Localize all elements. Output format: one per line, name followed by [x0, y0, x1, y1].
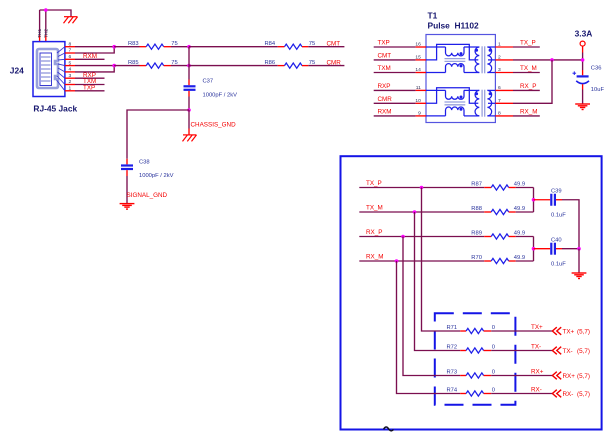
resistor R86 right stub — [302, 65, 308, 67]
svg-text:RX+: RX+ — [563, 373, 576, 380]
resistor R85 left stub — [140, 65, 147, 67]
pin 2 stub — [65, 84, 75, 86]
wire RX_M bus — [359, 260, 484, 262]
wire RX_M tap down to R74 — [397, 261, 461, 394]
svg-text:R84: R84 — [265, 41, 276, 47]
svg-text:TX_M: TX_M — [366, 205, 383, 212]
off-page connector RX- — [552, 390, 561, 398]
wire node to R85 — [114, 65, 139, 67]
resistor R87 right stub — [509, 187, 516, 189]
wire TXM — [374, 72, 416, 74]
svg-text:3: 3 — [69, 73, 72, 79]
wire TX_P tap down to R71 — [422, 188, 461, 332]
choke upper winding — [446, 47, 465, 56]
junction C40 — [532, 247, 536, 251]
resistor R87 left stub — [484, 187, 491, 189]
choke lower dot — [460, 64, 463, 67]
wire node to R84 — [189, 46, 278, 48]
svg-text:R71: R71 — [447, 325, 458, 331]
capacitor C37 top stub — [188, 80, 190, 86]
capacitor C37 plates — [184, 86, 196, 90]
capacitor C36 top stub — [582, 70, 584, 75]
wire CMR — [374, 102, 416, 104]
pin 7 stub — [65, 52, 75, 54]
svg-text:1: 1 — [69, 86, 72, 92]
svg-text:RXP: RXP — [378, 83, 391, 90]
svg-text:R88: R88 — [471, 206, 482, 212]
resistor R89 body — [491, 234, 509, 239]
svg-text:CHASSIS_GND: CHASSIS_GND — [191, 121, 237, 128]
junction shield — [44, 8, 48, 12]
svg-text:3.3A: 3.3A — [575, 28, 593, 38]
wire power to rail — [582, 53, 584, 71]
svg-text:0: 0 — [492, 369, 495, 375]
junction chassis node — [187, 108, 191, 112]
ground symbol (terminations) — [572, 273, 587, 279]
junction C39 — [532, 198, 536, 202]
wire pin4 up to pin5 — [75, 66, 114, 72]
resistor R86 body — [285, 63, 303, 68]
wire R87 to bar — [516, 187, 534, 189]
resistor R87 body — [491, 185, 509, 190]
wire pin6 RXM — [75, 58, 105, 60]
wire TXP — [374, 46, 416, 48]
capacitor C36 plus sign — [573, 71, 577, 75]
wire CMT center-tap jog — [426, 44, 478, 60]
wire pin7 to center tap rail — [513, 60, 552, 103]
svg-text:1000pF / 2kV: 1000pF / 2kV — [203, 92, 238, 98]
pin TH2 stub — [45, 36, 47, 42]
svg-text:49.9: 49.9 — [514, 206, 525, 212]
wire shield horizontal — [40, 10, 71, 17]
wire TH2 vertical — [45, 10, 47, 36]
primary dot — [475, 49, 478, 52]
capacitor C38 plates — [121, 166, 133, 170]
svg-text:TX+: TX+ — [563, 328, 575, 335]
wire RX termination bar — [533, 237, 535, 262]
svg-text:0.1uF: 0.1uF — [551, 261, 566, 267]
svg-text:2: 2 — [498, 55, 501, 61]
junction pins 7-8 — [112, 45, 116, 49]
svg-text:TXP: TXP — [378, 40, 390, 47]
svg-text:10uF: 10uF — [591, 87, 605, 93]
pin 3 stub — [65, 77, 75, 79]
capacitor C38 bottom stub — [126, 170, 128, 176]
svg-text:C38: C38 — [139, 160, 150, 166]
wire TX_M tap down to R72 — [415, 212, 461, 351]
svg-text:TX-: TX- — [563, 348, 573, 355]
capacitor C38 top stub — [126, 159, 128, 165]
wire RX_P bus — [359, 236, 484, 238]
resistor R73 body — [466, 373, 484, 378]
svg-text:6: 6 — [498, 85, 501, 91]
svg-text:(5,7): (5,7) — [577, 348, 590, 355]
junction row2 — [187, 64, 191, 68]
wire C36 to ground — [582, 90, 584, 105]
choke upper dot — [460, 52, 463, 55]
wire secondary bottom internal — [487, 72, 495, 74]
svg-text:R87: R87 — [471, 181, 482, 187]
pin 3 stub — [495, 72, 513, 74]
wire RXP — [374, 89, 416, 91]
revision squiggle mark — [384, 427, 394, 431]
T1 body box — [426, 35, 495, 123]
pin 9 stub — [416, 115, 426, 117]
capacitor C40 plates — [551, 243, 555, 255]
svg-text:15: 15 — [415, 55, 421, 61]
choke core lines — [445, 58, 466, 60]
pin 15 stub — [416, 59, 426, 61]
pin TH1 stub — [39, 36, 41, 42]
transformer primary winding — [475, 47, 479, 73]
transformer secondary winding — [487, 47, 491, 73]
wire TX_P bus — [359, 187, 484, 189]
wire pin5 to node — [75, 65, 114, 67]
resistor R71 body — [466, 328, 484, 333]
wire C38 to signal gnd — [126, 176, 128, 204]
connector J24 body — [33, 42, 65, 97]
wire choke to primary bottom — [464, 72, 479, 74]
resistor R83 body — [146, 44, 164, 49]
svg-text:TX_M: TX_M — [520, 65, 537, 72]
svg-text:RX_M: RX_M — [366, 254, 384, 261]
wire RX_P tap down to R73 — [403, 237, 460, 376]
svg-text:7: 7 — [69, 48, 72, 54]
resistor R72 body — [466, 348, 484, 353]
svg-text:1000pF / 2kV: 1000pF / 2kV — [139, 173, 174, 179]
svg-text:TH1: TH1 — [37, 28, 43, 38]
power stub — [582, 46, 584, 52]
wire R72 to connector — [491, 350, 552, 352]
resistor R89 right stub — [509, 236, 516, 238]
pin 14 stub — [416, 72, 426, 74]
svg-text:CMR: CMR — [327, 59, 342, 66]
svg-text:3: 3 — [498, 67, 501, 73]
resistor R74 left stub — [460, 393, 466, 395]
wire pin3 RXP — [75, 77, 105, 79]
svg-text:R72: R72 — [447, 344, 458, 350]
wire secondary tap internal — [488, 59, 495, 61]
dashed option box — [435, 313, 516, 405]
wire pin14 internal — [426, 72, 446, 74]
svg-text:R73: R73 — [447, 369, 458, 375]
pin 6 stub — [495, 89, 513, 91]
resistor R73 right stub — [484, 375, 492, 377]
pin 1 stub — [495, 46, 513, 48]
pin 8 stub — [65, 46, 75, 48]
svg-text:16: 16 — [415, 42, 421, 48]
svg-text:7: 7 — [498, 98, 501, 104]
svg-text:1: 1 — [498, 42, 501, 48]
wire pin16 internal — [426, 46, 446, 48]
svg-text:TXP: TXP — [83, 85, 95, 92]
resistor R71 right stub — [484, 330, 492, 332]
capacitor C36 bottom stub — [582, 84, 584, 89]
svg-text:R85: R85 — [128, 60, 139, 66]
pin 6 stub — [65, 58, 75, 60]
svg-text:R74: R74 — [447, 387, 458, 393]
wire row1 down to C37 — [188, 47, 190, 80]
svg-text:49.9: 49.9 — [514, 255, 525, 261]
pin 11 stub — [416, 89, 426, 91]
wire pin1 TXP — [75, 90, 105, 92]
svg-text:6: 6 — [69, 54, 72, 60]
resistor R70 body — [491, 258, 509, 263]
svg-text:(5,7): (5,7) — [577, 373, 590, 380]
capacitor C39 plates — [551, 194, 555, 206]
T1 RX half internals (choke + transformer) — [426, 88, 495, 117]
junction rail — [581, 58, 585, 62]
capacitor C39 left stub — [534, 199, 551, 201]
block border — [341, 156, 602, 429]
svg-text:C39: C39 — [551, 189, 562, 195]
resistor R86 left stub — [278, 65, 285, 67]
svg-text:4: 4 — [69, 67, 72, 73]
svg-text:5: 5 — [69, 60, 72, 66]
svg-text:RXM: RXM — [83, 53, 97, 60]
jack socket frame — [37, 49, 58, 88]
junction gnd rail — [577, 247, 581, 251]
svg-text:J24: J24 — [10, 66, 24, 76]
junction row1 — [187, 45, 191, 49]
wire C40 to gnd rail — [562, 248, 579, 250]
capacitor C36 curved plate — [576, 81, 589, 84]
svg-text:9: 9 — [418, 111, 421, 117]
pin 8 stub — [495, 115, 513, 117]
pin 1 stub — [65, 90, 75, 92]
svg-text:0: 0 — [492, 387, 495, 393]
svg-text:R89: R89 — [471, 230, 482, 236]
wire R70 to bar — [516, 260, 534, 262]
junction TX_M tap — [413, 210, 417, 214]
wire node to R83 — [114, 46, 139, 48]
svg-text:Pulse H1102: Pulse H1102 — [428, 21, 480, 31]
capacitor C40 right stub — [556, 248, 562, 250]
resistor R89 left stub — [484, 236, 491, 238]
svg-text:8: 8 — [498, 111, 501, 117]
svg-text:2: 2 — [69, 79, 72, 85]
resistor R88 body — [491, 209, 509, 214]
resistor R74 body — [466, 391, 484, 396]
resistor R84 left stub — [278, 46, 285, 48]
signal ground symbol — [120, 204, 135, 210]
wire C37 to node — [188, 97, 190, 111]
wire pin2 TXM — [75, 84, 105, 86]
wire node to C38 branch — [127, 110, 189, 159]
resistor R73 left stub — [460, 375, 466, 377]
wire R88 to bar — [516, 211, 534, 213]
pin 10 stub — [416, 102, 426, 104]
svg-text:RX_P: RX_P — [520, 83, 536, 90]
svg-text:RX+: RX+ — [531, 369, 544, 376]
svg-text:CMT: CMT — [327, 40, 341, 47]
svg-text:R70: R70 — [471, 255, 482, 261]
wire node down to chassis gnd — [188, 110, 190, 129]
svg-text:(5,7): (5,7) — [577, 328, 590, 335]
svg-text:TH2: TH2 — [43, 28, 49, 38]
T1 TX half internals — [426, 44, 495, 73]
resistor R84 right stub — [302, 46, 308, 48]
svg-text:49.9: 49.9 — [514, 230, 525, 236]
resistor R71 left stub — [460, 330, 466, 332]
jack contact block — [40, 53, 52, 86]
wire TX_P stub — [513, 46, 540, 48]
pin 2 stub — [495, 59, 513, 61]
svg-text:8: 8 — [69, 41, 72, 47]
pin 7 stub — [495, 102, 513, 104]
svg-text:11: 11 — [416, 85, 421, 91]
resistor R88 right stub — [509, 211, 516, 213]
wire RX_P stub — [513, 89, 540, 91]
resistor R74 right stub — [484, 393, 492, 395]
junction RX_P tap — [401, 235, 405, 239]
resistor R83 left stub — [140, 46, 147, 48]
junction pins 4-5 — [112, 64, 116, 68]
wire secondary top internal — [487, 46, 495, 48]
svg-text:R83: R83 — [128, 41, 139, 47]
svg-text:C37: C37 — [203, 79, 214, 85]
svg-text:CMR: CMR — [378, 96, 393, 103]
wire R83 to node — [171, 46, 189, 48]
capacitor C40 left stub — [534, 248, 551, 250]
power symbol 3.3A — [580, 41, 585, 46]
wire pin2 to 3.3A rail — [513, 59, 583, 61]
off-page connector RX+ — [552, 372, 561, 380]
svg-text:TX_P: TX_P — [366, 180, 382, 187]
pin 4 stub — [65, 71, 75, 73]
transformer core lines — [481, 46, 483, 73]
capacitor C39 right stub — [556, 199, 562, 201]
wire pin8 to node — [75, 46, 114, 48]
wire TX termination bar — [533, 188, 535, 213]
wire node to R86 — [189, 65, 278, 67]
junction center taps — [550, 58, 554, 62]
resistor R72 right stub — [484, 350, 492, 352]
resistor R72 left stub — [460, 350, 466, 352]
svg-text:0: 0 — [492, 325, 495, 331]
wire pin7 up to pin8 — [75, 47, 114, 53]
resistor R83 right stub — [164, 46, 171, 48]
wire RXM — [374, 115, 416, 117]
wire TX_M bus — [359, 211, 484, 213]
wire R86 to CMR — [308, 65, 344, 67]
junction RX_M tap — [395, 259, 399, 263]
svg-text:0: 0 — [492, 344, 495, 350]
wire R74 to connector — [491, 393, 552, 395]
svg-text:TX_P: TX_P — [520, 40, 536, 47]
wire R89 to bar — [516, 236, 534, 238]
wire R84 to CMT — [308, 46, 344, 48]
svg-text:TX-: TX- — [531, 344, 541, 351]
resistor R70 right stub — [509, 260, 516, 262]
wire R71 to connector — [491, 330, 552, 332]
svg-text:RX-: RX- — [563, 391, 574, 398]
wire choke to primary top — [464, 46, 479, 48]
capacitor C37 bottom stub — [188, 91, 190, 97]
svg-text:T1: T1 — [428, 10, 438, 20]
wire gnd rail down — [578, 249, 580, 273]
wire TH1 vertical — [39, 10, 41, 36]
svg-text:TXM: TXM — [378, 65, 391, 72]
svg-text:RX_P: RX_P — [366, 229, 382, 236]
wire TX_M stub — [513, 72, 540, 74]
resistor R88 left stub — [484, 211, 491, 213]
pin 5 stub — [65, 65, 75, 67]
wire R73 to connector — [491, 375, 552, 377]
resistor R84 body — [285, 44, 303, 49]
jack contact lines — [41, 57, 51, 81]
chassis ground (top-left) — [64, 17, 78, 24]
pin 16 stub — [416, 46, 426, 48]
resistor R70 left stub — [484, 260, 491, 262]
svg-text:RX_M: RX_M — [520, 109, 538, 116]
choke lower winding — [446, 64, 465, 73]
svg-text:CMT: CMT — [378, 53, 392, 60]
wire R85 to node — [171, 65, 189, 67]
off-page connector TX+ — [552, 327, 561, 335]
resistor R85 right stub — [164, 65, 171, 67]
wire C39 to gnd rail — [562, 200, 579, 249]
chassis ground symbol — [183, 135, 197, 142]
svg-text:C36: C36 — [591, 66, 602, 72]
wire RX_M stub — [513, 115, 540, 117]
svg-text:TX+: TX+ — [531, 324, 543, 331]
junction TX_P tap — [420, 186, 424, 190]
svg-text:(5,7): (5,7) — [577, 391, 590, 398]
off-page connector TX- — [552, 347, 561, 355]
svg-text:RX-: RX- — [531, 387, 542, 394]
wire CMT — [374, 59, 416, 61]
svg-text:R86: R86 — [265, 60, 276, 66]
svg-text:49.9: 49.9 — [514, 181, 525, 187]
svg-text:RXM: RXM — [378, 109, 392, 116]
resistor R85 body — [146, 63, 164, 68]
capacitor C36 top plate — [577, 75, 589, 77]
svg-text:C40: C40 — [551, 238, 562, 244]
svg-text:0.1uF: 0.1uF — [551, 212, 566, 218]
jack fan-out lines — [57, 47, 65, 91]
svg-text:14: 14 — [415, 67, 421, 73]
ground symbol (C36) — [575, 104, 590, 110]
svg-text:SIGNAL_GND: SIGNAL_GND — [127, 192, 168, 199]
svg-text:RJ-45 Jack: RJ-45 Jack — [33, 104, 77, 114]
secondary dot — [489, 49, 492, 52]
svg-text:10: 10 — [415, 98, 421, 104]
pin stub chassis gnd — [188, 129, 190, 135]
